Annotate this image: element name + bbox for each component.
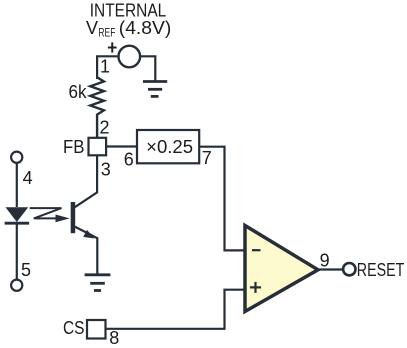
RESET terminal circle	[343, 263, 355, 275]
svg-text:FB: FB	[63, 137, 85, 157]
LED cathode bar	[5, 222, 30, 225]
wire source right to ground	[140, 56, 155, 81]
comparator U1	[245, 226, 318, 312]
svg-text:5: 5	[21, 260, 31, 280]
ground (below transistor)	[85, 275, 111, 291]
svg-text:1: 1	[100, 57, 110, 77]
comparator minus input mark	[252, 249, 261, 251]
svg-text:8: 8	[109, 328, 119, 348]
svg-text:RESET: RESET	[357, 260, 405, 280]
svg-text:CS: CS	[63, 318, 85, 338]
pin 5 terminal circle	[11, 280, 22, 291]
svg-text:9: 9	[320, 250, 330, 270]
wire pin4 to LED anode	[16, 163, 18, 207]
svg-text:(4.8V): (4.8V)	[119, 18, 172, 38]
svg-text:×0.25: ×0.25	[146, 137, 193, 157]
wire FB down to phototransistor collector	[75, 155, 97, 207]
node FB terminal square	[89, 138, 107, 156]
wire comparator output to terminal	[318, 268, 343, 270]
svg-text:4: 4	[23, 168, 33, 188]
svg-text:6: 6	[124, 150, 134, 170]
wire source left to resistor top	[97, 56, 118, 79]
wire multiplier output to comparator minus input	[199, 147, 244, 251]
phototransistor Q1 base bar	[71, 202, 76, 233]
LED of optocoupler (anode triangle)	[6, 207, 29, 222]
label VREF (4.8V)	[86, 18, 171, 39]
svg-text:6k: 6k	[69, 82, 88, 102]
wire FB to multiplier box	[106, 145, 137, 147]
svg-text:7: 7	[202, 148, 212, 168]
plus polarity mark	[108, 42, 117, 52]
resistor 6k	[90, 77, 104, 138]
light coupling arrow	[30, 208, 70, 222]
svg-text:3: 3	[101, 160, 111, 180]
pin 4 terminal circle	[11, 152, 22, 163]
svg-text:REF: REF	[98, 25, 115, 39]
comparator plus input mark	[250, 282, 261, 293]
svg-text:2: 2	[100, 117, 110, 137]
voltage source V1	[119, 46, 141, 68]
multiplier block x0.25	[137, 130, 199, 163]
wire CS to comparator plus input	[106, 290, 245, 329]
phototransistor emitter with arrow	[75, 227, 98, 274]
wire LED cathode to pin5	[16, 225, 18, 280]
ground (top right)	[143, 82, 167, 97]
svg-text:V: V	[86, 18, 98, 38]
node CS terminal square	[87, 320, 106, 339]
